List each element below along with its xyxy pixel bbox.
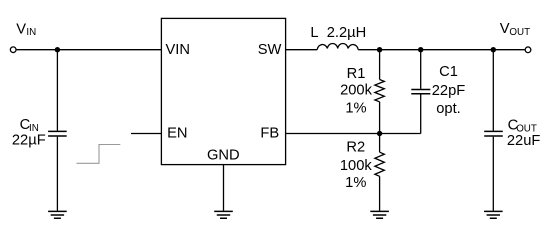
- svg-text:22uF: 22uF: [507, 133, 541, 149]
- svg-text:100k: 100k: [340, 158, 373, 174]
- svg-text:SW: SW: [258, 42, 282, 58]
- svg-text:OUT: OUT: [516, 123, 537, 134]
- svg-text:IN: IN: [26, 27, 36, 38]
- svg-text:FB: FB: [260, 126, 279, 142]
- svg-text:22pF: 22pF: [432, 83, 466, 99]
- svg-text:L 2.2µH: L 2.2µH: [310, 25, 366, 41]
- svg-text:IN: IN: [29, 123, 39, 134]
- svg-text:V: V: [500, 21, 510, 37]
- svg-text:1%: 1%: [345, 175, 366, 191]
- svg-text:C1: C1: [439, 64, 458, 80]
- svg-text:1%: 1%: [345, 101, 366, 117]
- svg-text:GND: GND: [207, 147, 240, 163]
- svg-text:OUT: OUT: [509, 27, 530, 38]
- svg-text:VIN: VIN: [166, 42, 190, 58]
- svg-text:R1: R1: [347, 66, 366, 82]
- svg-text:200k: 200k: [340, 83, 373, 99]
- svg-text:opt.: opt.: [436, 101, 461, 117]
- svg-text:V: V: [16, 21, 26, 37]
- svg-text:R2: R2: [346, 139, 365, 155]
- svg-text:EN: EN: [167, 126, 187, 142]
- svg-text:22µF: 22µF: [12, 133, 46, 149]
